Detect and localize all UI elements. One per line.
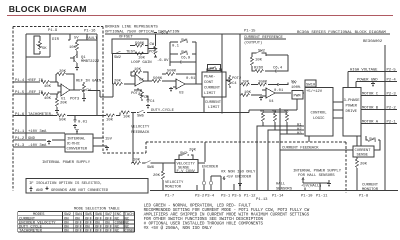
wire pin drops [197, 184, 234, 191]
svg-text:20K: 20K [360, 163, 368, 167]
svg-text:LIMIT: LIMIT [208, 106, 220, 110]
svg-text:LOGIC: LOGIC [313, 117, 325, 121]
node 5V 100pct [291, 82, 301, 91]
resistor pullup H1 [260, 110, 265, 126]
label VELOCITY FEEDBACK [131, 126, 150, 136]
ground encoder [238, 178, 242, 187]
capacitor compensation pair [170, 60, 196, 63]
resistor 500K comp [162, 66, 196, 76]
svg-text:P2-3: P2-3 [387, 93, 397, 97]
svg-text:100%: 100% [291, 86, 301, 90]
svg-text:DC-TO-DC: DC-TO-DC [67, 143, 80, 147]
svg-text:10K: 10K [242, 81, 250, 85]
resistor 10K fault pullup [69, 40, 79, 54]
svg-text:P3-4: P3-4 [205, 195, 215, 199]
switch SW2 current ref [252, 50, 266, 57]
dir input box wire [26, 34, 97, 57]
wire pullup top rail [263, 110, 287, 112]
svg-text:SW10: SW10 [306, 84, 316, 88]
svg-text:+6.8: +6.8 [159, 32, 169, 36]
svg-text:MODE SELECTION TABLE: MODE SELECTION TABLE [74, 208, 120, 212]
encoder channel B symbol [209, 176, 213, 191]
node +5V hall [301, 178, 329, 191]
label VELOCITY MONITOR [165, 181, 184, 190]
svg-text:INTERNAL: INTERNAL [67, 138, 86, 142]
svg-text:-REF IN: -REF IN [27, 91, 44, 95]
svg-text:500K: 500K [167, 70, 177, 74]
wire converter gnd out [93, 146, 109, 151]
svg-text:P1-12: P1-12 [244, 195, 256, 199]
motor A wire P2-1 [361, 121, 397, 125]
svg-text:+10V 3mA: +10V 3mA [28, 130, 47, 134]
wire current feedback [280, 108, 353, 151]
resistor pullup H2 [272, 110, 277, 130]
wire encoder B up [211, 176, 221, 191]
svg-text:CONTROL: CONTROL [311, 112, 328, 116]
svg-text:TEST: TEST [126, 51, 136, 55]
svg-text:0.01: 0.01 [186, 77, 196, 81]
svg-text:20K: 20K [59, 70, 67, 74]
capacitor C8 0.01 [73, 116, 88, 129]
svg-text:C6,4: C6,4 [273, 67, 283, 71]
svg-text:TACHOMETER-: TACHOMETER- [28, 113, 53, 117]
svg-text:0.01: 0.01 [78, 121, 88, 125]
svg-text:POT3: POT3 [70, 98, 80, 102]
label HALL SENSORS [276, 183, 293, 192]
svg-text:0.01: 0.01 [274, 89, 284, 93]
svg-text:5K: 5K [42, 47, 47, 51]
wire feedback loop [204, 97, 297, 113]
svg-text:VELOCITY: VELOCITY [131, 126, 150, 130]
wire H1 [257, 124, 304, 128]
resistor 20K vel monitor [153, 163, 165, 191]
node CURRENT REFERENCE OUTPUT [244, 36, 286, 46]
PWM block [275, 91, 304, 100]
svg-text:50K: 50K [59, 118, 67, 122]
wire internal supply pins [13, 133, 65, 147]
svg-text:DIR: DIR [52, 38, 60, 42]
svg-text:AMPLIFIERS ARE SHIPPED IN CURR: AMPLIFIERS ARE SHIPPED IN CURRENT MODE W… [144, 213, 310, 217]
switch TEST SW2 [114, 51, 136, 60]
wire tachometer [13, 115, 106, 117]
wire hall drops [257, 126, 280, 191]
svg-text:10K: 10K [69, 46, 77, 50]
3-phase power drive block [343, 88, 361, 137]
svg-text:40K: 40K [44, 97, 52, 101]
svg-text:POT2: POT2 [232, 77, 242, 81]
svg-text:U3: U3 [179, 92, 184, 96]
svg-text:CURRENT: CURRENT [205, 101, 222, 105]
label CURRENT MONITOR [362, 184, 379, 193]
svg-text:SW5: SW5 [137, 115, 145, 119]
svg-text:PEAK-: PEAK- [204, 76, 215, 80]
svg-text:3-PHASE: 3-PHASE [344, 99, 361, 103]
svg-text:C6,9: C6,9 [181, 57, 191, 61]
potentiometer POT1 [131, 88, 149, 101]
mode selection table [74, 208, 120, 212]
op-amp U1 [58, 82, 74, 102]
svg-text:BLOCK DIAGRAM: BLOCK DIAGRAM [9, 4, 87, 14]
high voltage wire P2-5 [348, 69, 397, 88]
svg-text:CW: CW [86, 89, 91, 93]
node -6.8V [154, 57, 169, 63]
ground hall supply [327, 180, 331, 187]
velocity sense block [175, 160, 198, 175]
resistor 10K offset inject [113, 52, 146, 84]
wire H2 [268, 128, 304, 132]
svg-text:IF ISOLATION OPTION IS SELECTE: IF ISOLATION OPTION IS SELECTED, [29, 182, 102, 186]
svg-text:P1-16: P1-16 [84, 30, 96, 34]
svg-text:HALL: HALL [276, 183, 286, 187]
svg-text:CW: CW [150, 43, 155, 47]
svg-text:P1-15: P1-15 [244, 30, 256, 34]
svg-text:H3: H3 [297, 132, 302, 136]
svg-text:MOTOR B: MOTOR B [362, 107, 379, 111]
potentiometer POT2 [226, 75, 242, 88]
svg-text:P1-6: P1-6 [15, 113, 25, 117]
svg-text:+5V ENCODER: +5V ENCODER [226, 176, 252, 180]
svg-text:GROUNDS ARE NOT CONNECTED: GROUNDS ARE NOT CONNECTED [51, 189, 109, 193]
svg-text:BC30A SERIES FUNCTIONAL BLOCK: BC30A SERIES FUNCTIONAL BLOCK DIAGRAM [297, 31, 386, 35]
svg-text:SW6: SW6 [147, 166, 155, 170]
svg-text:10K: 10K [244, 91, 252, 95]
svg-text:U4: U4 [269, 100, 274, 104]
svg-text:LOOP GAIN: LOOP GAIN [131, 61, 152, 65]
svg-text:10K: 10K [123, 115, 131, 119]
svg-text:+5/+12V: +5/+12V [306, 89, 323, 94]
resistor 10K current ref [250, 56, 262, 71]
svg-text:BROKEN LINE REPRESENTS: BROKEN LINE REPRESENTS [105, 26, 158, 30]
capacitor 0.01 u4 [274, 83, 288, 93]
svg-text:SW1: SW1 [210, 68, 218, 72]
svg-text:F-V CONV: F-V CONV [177, 170, 196, 174]
op-amp U2 [131, 74, 144, 86]
svg-text:RECOMMENDED SETTING FOR CURREN: RECOMMENDED SETTING FOR CURRENT MODE - P… [144, 209, 310, 213]
svg-text:FOR HALL SENSORS: FOR HALL SENSORS [298, 174, 335, 178]
svg-text:OFF: OFF [105, 229, 113, 233]
switch SW4 velocity [144, 161, 175, 171]
svg-text:20K: 20K [114, 80, 122, 84]
svg-text:P1-9: P1-9 [48, 29, 58, 33]
svg-text:P1-7: P1-7 [165, 195, 175, 199]
wire encoder column [204, 142, 205, 178]
current limit block [202, 72, 226, 97]
svg-text:P1-2: P1-2 [15, 137, 25, 141]
node +6.8V [154, 32, 169, 36]
svg-text:FOR OTHER SWITCH FUNCTIONS SEE: FOR OTHER SWITCH FUNCTIONS SEE SWITCH DE… [144, 218, 264, 222]
svg-text:POWER GND: POWER GND [357, 79, 378, 83]
switch SW10 box [305, 80, 316, 88]
svg-text:5V: 5V [74, 37, 79, 41]
svg-text:MOTOR A: MOTOR A [362, 121, 379, 125]
svg-text:SW2: SW2 [114, 56, 122, 60]
ground above converter [75, 129, 79, 134]
svg-text:U2: U2 [139, 79, 144, 83]
svg-text:TACHOMETER: TACHOMETER [19, 229, 43, 233]
svg-text:P1-3: P1-3 [15, 144, 25, 148]
switch SW3 [366, 136, 380, 144]
motor C wire P2-3 [361, 93, 397, 97]
svg-text:MOTOR C: MOTOR C [362, 93, 379, 97]
svg-text:C4: C4 [150, 100, 155, 104]
svg-text:P1-13: P1-13 [256, 198, 268, 202]
svg-text:40K: 40K [44, 85, 52, 89]
resistor 20K feedback U1 [56, 70, 74, 90]
svg-text:20K: 20K [60, 102, 68, 106]
encoder channel A symbol [202, 178, 206, 191]
internal DC-DC converter block [65, 134, 93, 152]
transistor Q1 MMBT2222 [70, 54, 100, 66]
svg-text:#X +5V @ 250mA, NON ISO ONLY: #X +5V @ 250mA, NON ISO ONLY [144, 226, 213, 231]
svg-text:PWM: PWM [294, 95, 302, 99]
capacitor 0.01 U3 [186, 77, 196, 81]
svg-text:BE30A002: BE30A002 [363, 40, 383, 44]
svg-text:OFFSET: OFFSET [119, 36, 133, 40]
svg-text:C4: C4 [232, 82, 237, 86]
svg-text:POT1: POT1 [131, 92, 141, 96]
svg-text:SW1: SW1 [181, 39, 189, 43]
power gnd wire P2-4 [356, 79, 397, 88]
svg-text:SW3: SW3 [369, 138, 377, 142]
control to drive wires [333, 102, 343, 118]
svg-text:DUTY-CYCLE: DUTY-CYCLE [151, 109, 175, 113]
svg-text:MONITOR: MONITOR [362, 188, 379, 192]
wire U3 out [185, 74, 202, 84]
wire current reference drop [222, 34, 240, 191]
isolation dashed boundary [13, 27, 346, 194]
svg-text:10K: 10K [133, 159, 141, 163]
red rule [7, 15, 393, 16]
resistor 20K to gnd [55, 94, 67, 114]
svg-text:SW1: SW1 [181, 51, 189, 55]
wire logic bottom stub [308, 136, 310, 142]
svg-text:INTERNAL POWER SUPPLY: INTERNAL POWER SUPPLY [42, 161, 91, 165]
svg-text:CURRENT FEEDBACK: CURRENT FEEDBACK [282, 147, 319, 151]
svg-text:OFF: OFF [95, 229, 103, 233]
ground at P1-2 [47, 140, 51, 145]
svg-text:HIGH VOLTAGE: HIGH VOLTAGE [350, 69, 378, 73]
svg-text:P1-14: P1-14 [272, 195, 284, 199]
switch SW1 lead lag 0.1 [170, 39, 196, 66]
op-amp U3 [169, 79, 185, 96]
svg-text:ENCODER: ENCODER [202, 166, 219, 170]
svg-text:-6.8V: -6.8V [157, 59, 169, 63]
svg-text:P2-5: P2-5 [387, 69, 397, 73]
svg-text:20K: 20K [153, 174, 161, 178]
switch SW1 C6 9 [170, 51, 196, 61]
svg-text:INTERNAL POWER SUPPLY: INTERNAL POWER SUPPLY [293, 170, 342, 174]
potentiometer 5K [34, 36, 47, 54]
svg-text:MONITOR: MONITOR [165, 186, 182, 190]
svg-text:P1-11: P1-11 [316, 195, 328, 199]
svg-text:#X NON ISO ONLY: #X NON ISO ONLY [221, 171, 256, 175]
svg-text:P1-4: P1-4 [15, 79, 25, 83]
note: broken line text [105, 26, 180, 35]
svg-text:CURRENT: CURRENT [362, 184, 379, 188]
switch SW1 current limit [207, 65, 221, 73]
op-amp U4 [259, 88, 275, 104]
svg-text:(OUTPUT): (OUTPUT) [244, 41, 262, 46]
resistor 20K into U2 [113, 80, 131, 98]
offset network box wire [112, 39, 148, 54]
resistor 500K after U2 [144, 77, 173, 83]
bottom rail [150, 190, 398, 192]
svg-text:CURRENT REFERENCE: CURRENT REFERENCE [244, 36, 284, 40]
svg-text:SW2: SW2 [258, 50, 266, 54]
resistor 10K velocity [131, 159, 144, 165]
wire pot3 to loop gain stage [88, 91, 113, 98]
svg-text:500K: 500K [135, 42, 145, 46]
svg-text:-10V 3mA: -10V 3mA [28, 144, 47, 148]
wire ref input bus [13, 34, 70, 94]
svg-text:SENSE: SENSE [357, 154, 369, 158]
svg-text:5V: 5V [292, 82, 297, 86]
wire 15V out [93, 138, 113, 142]
svg-text:CONN: CONN [125, 229, 135, 233]
current sense block [353, 136, 380, 158]
resistor 20K current monitor [355, 157, 367, 191]
svg-text:REF IN GAIN: REF IN GAIN [76, 80, 102, 84]
svg-text:15V: 15V [105, 138, 113, 142]
resistor 50K tach [57, 114, 67, 122]
top frame wire [105, 33, 390, 35]
svg-text:LED GREEN - NORMAL OPERATION,: LED GREEN - NORMAL OPERATION, LED RED- F… [144, 204, 252, 208]
svg-text:OFF: OFF [75, 229, 83, 233]
svg-text:DRIVE: DRIVE [346, 110, 358, 114]
resistor 500K offset [130, 42, 148, 47]
svg-text:10K: 10K [134, 68, 142, 72]
resistor R26A [252, 67, 272, 73]
svg-text:CONT: CONT [204, 81, 214, 85]
svg-text:+REF IN: +REF IN [27, 79, 44, 83]
svg-text:500K: 500K [153, 77, 163, 81]
wire fault [77, 34, 97, 57]
svg-text:R26X: R26X [254, 67, 264, 71]
svg-text:10K: 10K [106, 118, 114, 122]
svg-text:NC: NC [115, 229, 120, 233]
svg-text:P2-4: P2-4 [387, 79, 397, 83]
resistor 10K loop gain feedback [131, 68, 148, 81]
svg-text:10K: 10K [138, 57, 146, 61]
svg-text:20K: 20K [189, 149, 197, 153]
svg-text:POWER: POWER [346, 105, 358, 109]
capacitor C4 pot1 [146, 96, 155, 109]
svg-text:FAULT: FAULT [86, 37, 98, 41]
svg-text:# OPTIONAL USER INSTALLED THRO: # OPTIONAL USER INSTALLED THROUGH HOLE C… [144, 222, 264, 226]
label CURRENT LIMIT [205, 101, 222, 110]
svg-text:+5V(HALL): +5V(HALL) [301, 184, 322, 189]
svg-text:FEEDBACK: FEEDBACK [131, 131, 150, 135]
svg-text:P2-1: P2-1 [387, 121, 397, 125]
wire left column [96, 34, 98, 116]
wire velocity column [132, 113, 134, 164]
P2 connector rail [384, 45, 386, 191]
potentiometer POT3 [70, 82, 91, 102]
svg-text:OFF: OFF [85, 229, 93, 233]
motor B wire P2-2 [361, 107, 397, 111]
svg-text:P3-1: P3-1 [221, 195, 231, 199]
svg-text:CONVERTER: CONVERTER [67, 148, 88, 152]
resistor 40K bottom [41, 92, 58, 101]
svg-text:POT: POT [149, 51, 157, 55]
svg-text:P3-5: P3-5 [232, 195, 242, 199]
control logic block [305, 88, 333, 137]
inner left rail wire [25, 35, 27, 139]
svg-text:ON: ON [64, 229, 69, 233]
svg-text:P3-2: P3-2 [195, 195, 205, 199]
resistor pullup H3 [284, 110, 289, 134]
svg-text:LIMIT: LIMIT [204, 92, 216, 96]
svg-text:P1-1: P1-1 [15, 130, 25, 134]
svg-text:SW7: SW7 [180, 152, 188, 156]
svg-text:P1-8: P1-8 [359, 195, 369, 199]
svg-text:10K: 10K [255, 59, 263, 63]
resistor 40K top [41, 80, 58, 89]
svg-text:GND: GND [28, 137, 36, 141]
wire duty cycle [106, 109, 222, 122]
label 5V encoder note [221, 171, 256, 181]
wire velocity sense to encoder [198, 162, 205, 164]
svg-text:CURRENT: CURRENT [355, 149, 372, 153]
label internal supply hall [293, 170, 342, 179]
ground at Q1 [75, 66, 79, 71]
svg-text:CURRENT: CURRENT [204, 87, 221, 91]
svg-text:AND: AND [36, 189, 44, 193]
svg-text:100K: 100K [258, 81, 268, 85]
svg-text:P1-10: P1-10 [301, 195, 313, 199]
capacitor C6 34 [266, 53, 288, 73]
node 5V cap [288, 81, 296, 85]
svg-text:P1-5: P1-5 [15, 91, 25, 95]
svg-text:P2-2: P2-2 [387, 107, 397, 111]
resistor 10K U4 in2 [240, 91, 262, 97]
svg-text:0.1: 0.1 [172, 45, 180, 49]
notes text block [144, 204, 310, 231]
resistor 10K into U4 [240, 81, 256, 87]
resistor 100K [256, 81, 276, 87]
wire H3 [280, 132, 304, 136]
switch SW7 top velocity [179, 149, 197, 160]
svg-text:VELOCITY: VELOCITY [165, 181, 184, 185]
isolation note box [26, 179, 148, 194]
potentiometer offset pot [148, 34, 157, 57]
